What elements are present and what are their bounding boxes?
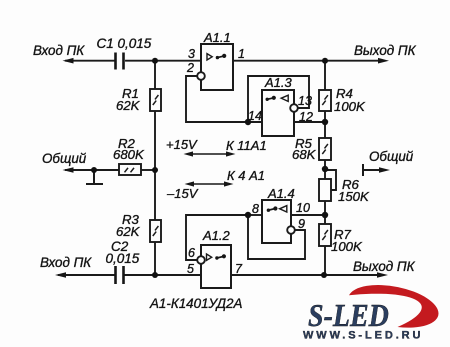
- node output top: [322, 58, 328, 64]
- wire A1.2 pin7 to right arrow: [231, 274, 381, 276]
- node C2/bottom bus: [152, 272, 158, 278]
- arrow common left: [63, 167, 74, 173]
- arrow output top right: [378, 58, 389, 64]
- wire R6 wiper tap to top terminal: [325, 170, 336, 190]
- wire bottom input from arrow to C2: [59, 274, 114, 276]
- wire C1 to A1.1 pin3: [126, 60, 201, 62]
- svg-text:Вход ПК: Вход ПК: [33, 43, 85, 58]
- svg-text:WWW.S-LED.RU: WWW.S-LED.RU: [303, 330, 423, 342]
- resistor R4: [319, 90, 331, 111]
- svg-text:–15V: –15V: [166, 186, 199, 201]
- svg-text:+15V: +15V: [166, 137, 198, 152]
- wire A1.4 feedback pin9 to pin8 node: [248, 215, 305, 259]
- node R5/R6: [322, 166, 328, 172]
- wire R2 node to R3: [154, 170, 156, 220]
- node pin8: [245, 212, 251, 218]
- arrow output bottom right: [377, 272, 388, 278]
- wire R3 to bottom bus: [154, 242, 156, 275]
- node pin14: [245, 119, 251, 125]
- node junction dots: [91, 58, 328, 278]
- svg-text:12: 12: [299, 110, 313, 124]
- resistor R1: [150, 89, 161, 111]
- svg-text:A1.2: A1.2: [202, 228, 231, 243]
- wire right vertical bus top node to R4: [324, 61, 326, 90]
- svg-text:А1-К1401УД2А: А1-К1401УД2А: [149, 296, 243, 311]
- node output bottom: [321, 272, 327, 278]
- op-amp U A1.3: [262, 90, 294, 136]
- node pin10/R6: [322, 212, 328, 218]
- svg-text:C1 0,015: C1 0,015: [97, 36, 152, 51]
- svg-text:Выход ПК: Выход ПК: [354, 43, 417, 58]
- wire A1.4 pin10 to right bus: [291, 214, 325, 216]
- capacitor C2: [116, 266, 124, 284]
- wire R4 to pin12 node: [324, 111, 326, 138]
- node R2/left bus: [152, 167, 158, 173]
- svg-text:A1.1: A1.1: [203, 30, 231, 45]
- svg-text:S-LED: S-LED: [308, 298, 389, 333]
- arrow -15V double: [185, 181, 234, 186]
- node C1/R1 top: [152, 58, 158, 64]
- ground symbol left common: [86, 170, 103, 184]
- op-amp A1.3 pin13 inverting circle: [290, 104, 298, 112]
- svg-text:7: 7: [235, 262, 243, 276]
- svg-text:100K: 100K: [331, 239, 363, 254]
- wire A1.3 pin12 to right bus: [294, 121, 325, 123]
- svg-text:3: 3: [188, 47, 195, 61]
- arrow common right: [363, 164, 383, 176]
- wire A1.4 pin8 segment: [248, 214, 262, 216]
- svg-text:5: 5: [187, 262, 194, 276]
- svg-text:680K: 680K: [113, 147, 145, 162]
- wire top input from arrow to C1: [66, 60, 114, 62]
- svg-text:9: 9: [298, 217, 305, 231]
- svg-text:62K: 62K: [116, 224, 141, 239]
- svg-text:1: 1: [238, 47, 245, 61]
- wire ground arrow to R2: [66, 169, 119, 171]
- resistor R6 trimmer: [319, 179, 331, 201]
- wire R5 to R6 node: [324, 160, 326, 179]
- svg-text:150K: 150K: [338, 189, 370, 204]
- wire A1.1 pin2 loop down to A1.3 pin14: [186, 76, 262, 122]
- op-amp U A1.4: [262, 200, 291, 243]
- wire R1 to R2 node: [154, 111, 156, 170]
- svg-text:A1.4: A1.4: [267, 186, 295, 201]
- logo S-LED red swoosh: [349, 285, 438, 328]
- arrow +15V double: [184, 151, 236, 156]
- svg-text:К 4 А1: К 4 А1: [227, 168, 265, 183]
- arrow input bottom left: [55, 272, 66, 278]
- resistor R2: [119, 164, 141, 175]
- resistor R5: [319, 138, 331, 160]
- svg-text:62K: 62K: [116, 98, 141, 113]
- resistor R3: [150, 220, 161, 242]
- svg-text:13: 13: [298, 94, 312, 108]
- svg-text:Общий: Общий: [42, 151, 87, 166]
- op-amp U A1.1: [201, 44, 233, 90]
- node pin12/R4: [322, 119, 328, 125]
- svg-text:Вход ПК: Вход ПК: [40, 255, 92, 270]
- wire R6 to pin10 node: [324, 201, 326, 224]
- svg-text:6: 6: [188, 246, 195, 260]
- wire A1.2 pin6 loop up to A1.4 pin8: [186, 215, 248, 260]
- wire C2 to A1.2 pin5: [125, 274, 201, 276]
- svg-text:10: 10: [296, 201, 310, 215]
- svg-text:A1.3: A1.3: [264, 75, 293, 90]
- resistor R7: [319, 224, 331, 246]
- svg-text:Общий: Общий: [369, 149, 414, 164]
- svg-text:14: 14: [248, 109, 262, 123]
- svg-text:8: 8: [252, 202, 259, 216]
- op-amp A1.1 pin2 inverting circle: [197, 72, 205, 80]
- op-amp A1.2 pin6 inverting circle: [197, 256, 205, 264]
- wire R2 to left bus: [141, 169, 155, 171]
- wire R7 to bottom bus: [324, 246, 326, 275]
- wire A1.3 feedback rectangle pin13 to pin14 node: [248, 76, 309, 122]
- svg-text:2: 2: [186, 61, 194, 75]
- wire left vertical bus upper (node of C1/R1): [154, 61, 156, 89]
- op-amp A1.4 pin9 inverting circle: [287, 226, 295, 234]
- op-amp U A1.2: [201, 245, 231, 288]
- svg-text:100K: 100K: [334, 99, 366, 114]
- arrow input top left: [63, 58, 74, 64]
- capacitor C1: [116, 53, 124, 70]
- svg-text:68K: 68K: [292, 147, 317, 162]
- svg-text:0,015: 0,015: [106, 251, 140, 266]
- svg-text:Выход ПК: Выход ПК: [353, 259, 416, 274]
- node ground/R2 left: [91, 167, 97, 173]
- wire A1.1 pin1 output to right arrow: [234, 60, 382, 62]
- svg-text:К 11А1: К 11А1: [226, 138, 267, 153]
